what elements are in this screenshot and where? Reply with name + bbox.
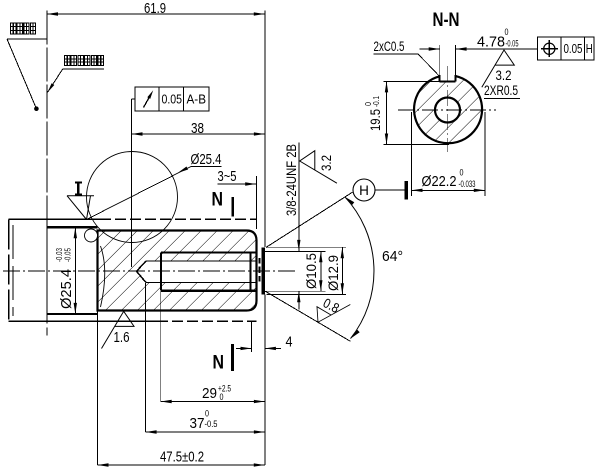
svg-text:-0.033: -0.033 bbox=[459, 179, 476, 190]
svg-text:1.6: 1.6 bbox=[114, 330, 130, 346]
svg-text:4: 4 bbox=[286, 334, 293, 351]
roughness at fillet bbox=[67, 196, 94, 220]
dim 29 +2.5/0 bbox=[161, 401, 265, 403]
dim 3~5 bbox=[218, 183, 257, 185]
svg-text:N: N bbox=[212, 189, 224, 211]
svg-text:0.05: 0.05 bbox=[162, 93, 183, 107]
label crankshaft end cover bbox=[11, 23, 16, 34]
label cover end face bbox=[65, 56, 70, 66]
roughness 3.2 keyway bbox=[482, 50, 515, 87]
dim O10.5 bbox=[320, 251, 322, 291]
extension lines bbox=[46, 11, 48, 225]
svg-text:-0.05: -0.05 bbox=[63, 248, 73, 262]
svg-text:Ø22.2: Ø22.2 bbox=[422, 173, 457, 190]
svg-text:2xC0.5: 2xC0.5 bbox=[374, 39, 405, 54]
dim O25.4 spigot bbox=[74, 227, 76, 314]
dim 61.9 bbox=[47, 13, 265, 15]
stub extension lines bbox=[267, 246, 346, 248]
svg-text:0: 0 bbox=[505, 27, 509, 38]
dim 4 bbox=[236, 347, 252, 349]
spigot outline bbox=[47, 226, 98, 228]
svg-text:0: 0 bbox=[460, 168, 464, 179]
svg-text:N: N bbox=[213, 352, 225, 374]
relief groove circle bbox=[85, 229, 98, 242]
svg-text:Ø10.5: Ø10.5 bbox=[304, 253, 319, 289]
center lines bbox=[398, 109, 496, 111]
64 deg angle bbox=[266, 192, 352, 247]
svg-text:61.9: 61.9 bbox=[144, 0, 166, 17]
svg-text:19.5: 19.5 bbox=[368, 109, 383, 131]
svg-text:-0.5: -0.5 bbox=[205, 419, 218, 430]
svg-text:Ø25.4: Ø25.4 bbox=[59, 269, 75, 309]
end-cover hidden outline bbox=[8, 219, 10, 321]
dim 37 0/-0.5 bbox=[146, 431, 265, 433]
svg-text:4.78: 4.78 bbox=[477, 34, 505, 51]
thread dim 3/8-24UNF 2B bbox=[298, 143, 300, 251]
dim 38 bbox=[132, 133, 265, 135]
svg-text:A-B: A-B bbox=[187, 93, 207, 107]
svg-text:47.5±0.2: 47.5±0.2 bbox=[160, 449, 204, 466]
svg-text:2XR0.5: 2XR0.5 bbox=[484, 83, 518, 98]
shaft body section bbox=[98, 231, 257, 311]
svg-text:0: 0 bbox=[220, 392, 224, 403]
svg-text:3/8-24UNF 2B: 3/8-24UNF 2B bbox=[284, 144, 299, 216]
keyway slot bbox=[439, 75, 441, 81]
svg-text:29: 29 bbox=[202, 385, 217, 402]
svg-text:N-N: N-N bbox=[433, 10, 460, 31]
roughness 0.8 bbox=[310, 291, 350, 332]
roughness 1.6 bbox=[102, 311, 135, 348]
dim O12.9 bbox=[341, 247, 343, 294]
dim 4.78 bbox=[420, 48, 440, 50]
svg-text:0: 0 bbox=[205, 409, 209, 420]
threaded bore bbox=[146, 260, 256, 262]
outer circle bbox=[414, 76, 482, 143]
svg-text:0.05: 0.05 bbox=[564, 42, 583, 56]
svg-text:H: H bbox=[359, 183, 369, 198]
detail circle I bbox=[87, 152, 178, 243]
svg-text:H: H bbox=[586, 42, 593, 56]
stub end bbox=[262, 247, 266, 294]
feature control frame runout bbox=[135, 87, 209, 111]
keyway slot whiteout bbox=[440, 72, 456, 81]
svg-text:3~5: 3~5 bbox=[218, 168, 237, 185]
FCF position 0.05 H bbox=[538, 37, 595, 60]
roughness 3.2 on thread bbox=[300, 151, 337, 184]
svg-text:Ø25.4: Ø25.4 bbox=[191, 151, 222, 168]
leader O25.4 bbox=[87, 167, 192, 220]
svg-text:-0.05: -0.05 bbox=[506, 39, 519, 50]
svg-text:Ø12.9: Ø12.9 bbox=[326, 255, 341, 291]
label I bbox=[75, 182, 82, 184]
center hole bbox=[435, 98, 460, 123]
svg-text:3.2: 3.2 bbox=[319, 155, 334, 171]
centerline bbox=[3, 270, 296, 272]
dim O22.2 bbox=[411, 112, 413, 196]
svg-text:64°: 64° bbox=[382, 248, 403, 265]
svg-text:38: 38 bbox=[191, 120, 204, 137]
svg-text:37: 37 bbox=[190, 415, 205, 432]
svg-text:3.2: 3.2 bbox=[496, 68, 512, 83]
svg-text:-0.1: -0.1 bbox=[371, 96, 381, 107]
datum H bbox=[353, 179, 375, 201]
keyway ext lines bbox=[439, 45, 441, 75]
dim 47.5±0.2 bbox=[98, 464, 265, 466]
dim 19.5 bbox=[384, 80, 442, 82]
